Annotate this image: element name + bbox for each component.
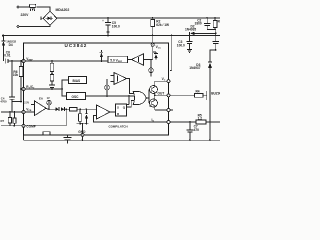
wire IS sense — [170, 121, 220, 123]
internal divider resistor upper — [50, 61, 54, 75]
oscillator output wire — [86, 95, 134, 97]
pin 4 RT/CT — [22, 85, 35, 91]
pin 7 VCC — [151, 36, 161, 50]
NOR gate — [133, 92, 149, 105]
wire fuse to bridge top — [37, 7, 50, 11]
internal zener 1V — [85, 109, 88, 124]
svg-text:R4: R4 — [196, 90, 200, 94]
svg-text:OSC: OSC — [72, 95, 80, 99]
capacitor at GND — [64, 135, 72, 144]
svg-text:1N4935: 1N4935 — [185, 27, 196, 31]
GND internal drop — [82, 123, 84, 133]
svg-text:0.01: 0.01 — [4, 54, 10, 58]
OUT node wire — [154, 92, 167, 98]
internal divider capacitor — [49, 85, 55, 90]
COMP internal line — [25, 109, 66, 126]
svg-text:1N4937: 1N4937 — [189, 66, 200, 70]
fuse F1 — [29, 4, 35, 11]
svg-text:R: R — [218, 19, 220, 23]
capacitor C3 — [177, 36, 193, 50]
svg-text:BIAS: BIAS — [73, 79, 81, 83]
pin PWR GND — [149, 101, 173, 112]
svg-text:1.2: 1.2 — [198, 117, 203, 121]
svg-text:1V: 1V — [47, 97, 50, 100]
resistor R7 feedback — [1, 112, 12, 126]
svg-text:470: 470 — [194, 128, 200, 132]
diode D3 — [189, 62, 212, 86]
internal lower node line — [77, 123, 89, 125]
output transistor bottom — [150, 98, 168, 110]
capacitor clamp right — [212, 41, 219, 51]
internal diode pair — [55, 107, 69, 111]
svg-text:62k / 1W: 62k / 1W — [156, 23, 169, 27]
internal resistor 2R — [78, 109, 81, 124]
wire RT/CT pin stub — [21, 88, 23, 90]
svg-text:4700: 4700 — [0, 100, 7, 104]
internal resistor in series — [70, 108, 97, 111]
capacitor C6 — [4, 50, 22, 63]
svg-text:S: S — [117, 106, 119, 110]
IS internal wire — [94, 116, 167, 123]
pin 2 VFB — [22, 108, 32, 115]
zener D4 — [2, 36, 17, 62]
resistor R2 — [151, 18, 169, 36]
resistor R5 — [196, 113, 206, 124]
capacitor C7 — [187, 122, 200, 141]
label 220V — [21, 13, 30, 17]
small component bottom left — [43, 132, 50, 135]
current sense comparator — [97, 105, 116, 119]
pin 6 OUT — [158, 91, 171, 96]
AC terminal bottom — [17, 25, 50, 27]
svg-text:2.5V: 2.5V — [24, 102, 29, 104]
svg-text:10k: 10k — [13, 73, 19, 77]
pin 3 IS — [152, 118, 171, 123]
svg-text:100.0: 100.0 — [177, 43, 185, 47]
bridge rectifier MDA202 — [43, 11, 57, 25]
PWM latch — [116, 104, 127, 116]
internal zener on VREF line — [100, 50, 103, 61]
svg-text:BUZ90: BUZ90 — [211, 91, 220, 95]
IC label UC3842 — [65, 43, 88, 48]
pin VC — [162, 77, 170, 83]
internal current source — [149, 60, 154, 77]
svg-text:3300: 3300 — [195, 21, 202, 25]
bottom rail — [24, 135, 221, 141]
svg-text:D4: D4 — [9, 43, 13, 47]
wire snubber bottom — [207, 30, 216, 42]
resistor R4 gate — [170, 90, 207, 98]
totem pole base wire — [149, 90, 151, 104]
internal zener clamp — [153, 46, 158, 59]
bridge label MDA202 — [56, 8, 70, 12]
svg-text:COMP/LATCH: COMP/LATCH — [109, 124, 128, 128]
error amp EA — [24, 97, 46, 116]
EA output node circle — [46, 97, 55, 110]
MOSFET Q1 BUZ90 — [207, 68, 222, 122]
resistor R6 — [13, 61, 23, 102]
reference buffer amp — [128, 54, 153, 65]
output transistor top — [150, 81, 168, 93]
HV+ top rail — [57, 17, 220, 19]
wire source to rail — [209, 122, 211, 141]
BIAS block — [62, 77, 87, 90]
resistor R8 snubber — [213, 18, 220, 30]
wire VC riser — [170, 36, 172, 71]
AC terminal top — [17, 6, 29, 8]
svg-text:+: + — [102, 19, 104, 23]
pin 8 VREF — [22, 57, 33, 63]
latch S input wire — [127, 96, 130, 105]
mid rail (VCC / return) — [2, 35, 220, 37]
svg-text:MDA202: MDA202 — [56, 8, 70, 12]
capacitor C4 timing — [0, 61, 22, 112]
internal RT/CT wire — [25, 88, 67, 96]
internal VREF line — [25, 60, 108, 62]
svg-text:R7: R7 — [1, 119, 5, 123]
svg-text:COMP: COMP — [26, 124, 36, 128]
ground below C3 — [187, 50, 192, 53]
capacitor C5 — [102, 18, 120, 36]
internal divider resistor lower — [50, 75, 54, 86]
svg-text:220V: 220V — [21, 13, 30, 17]
capacitor feedback — [13, 112, 16, 127]
pin 5 GND — [78, 130, 86, 140]
OSC block — [67, 93, 86, 100]
current source to comparator — [105, 79, 110, 96]
pin 1 COMP — [22, 124, 37, 128]
bridge left stub — [41, 17, 43, 20]
5.0V reference block — [108, 56, 128, 63]
UVLO comparator — [111, 73, 134, 94]
wire COMP node — [1, 125, 22, 127]
svg-text:100.0: 100.0 — [112, 24, 120, 28]
latch Q output wire — [127, 101, 134, 108]
capacitor C2 snubber — [195, 18, 211, 30]
svg-text:OUT: OUT — [158, 91, 165, 95]
label comparator/latch — [109, 124, 128, 128]
wire dogleg to drain — [210, 50, 216, 62]
diode D2 — [185, 24, 217, 35]
wire VFB node — [1, 111, 23, 113]
svg-text:UC3842: UC3842 — [65, 43, 88, 48]
IC U1 box — [24, 43, 169, 135]
